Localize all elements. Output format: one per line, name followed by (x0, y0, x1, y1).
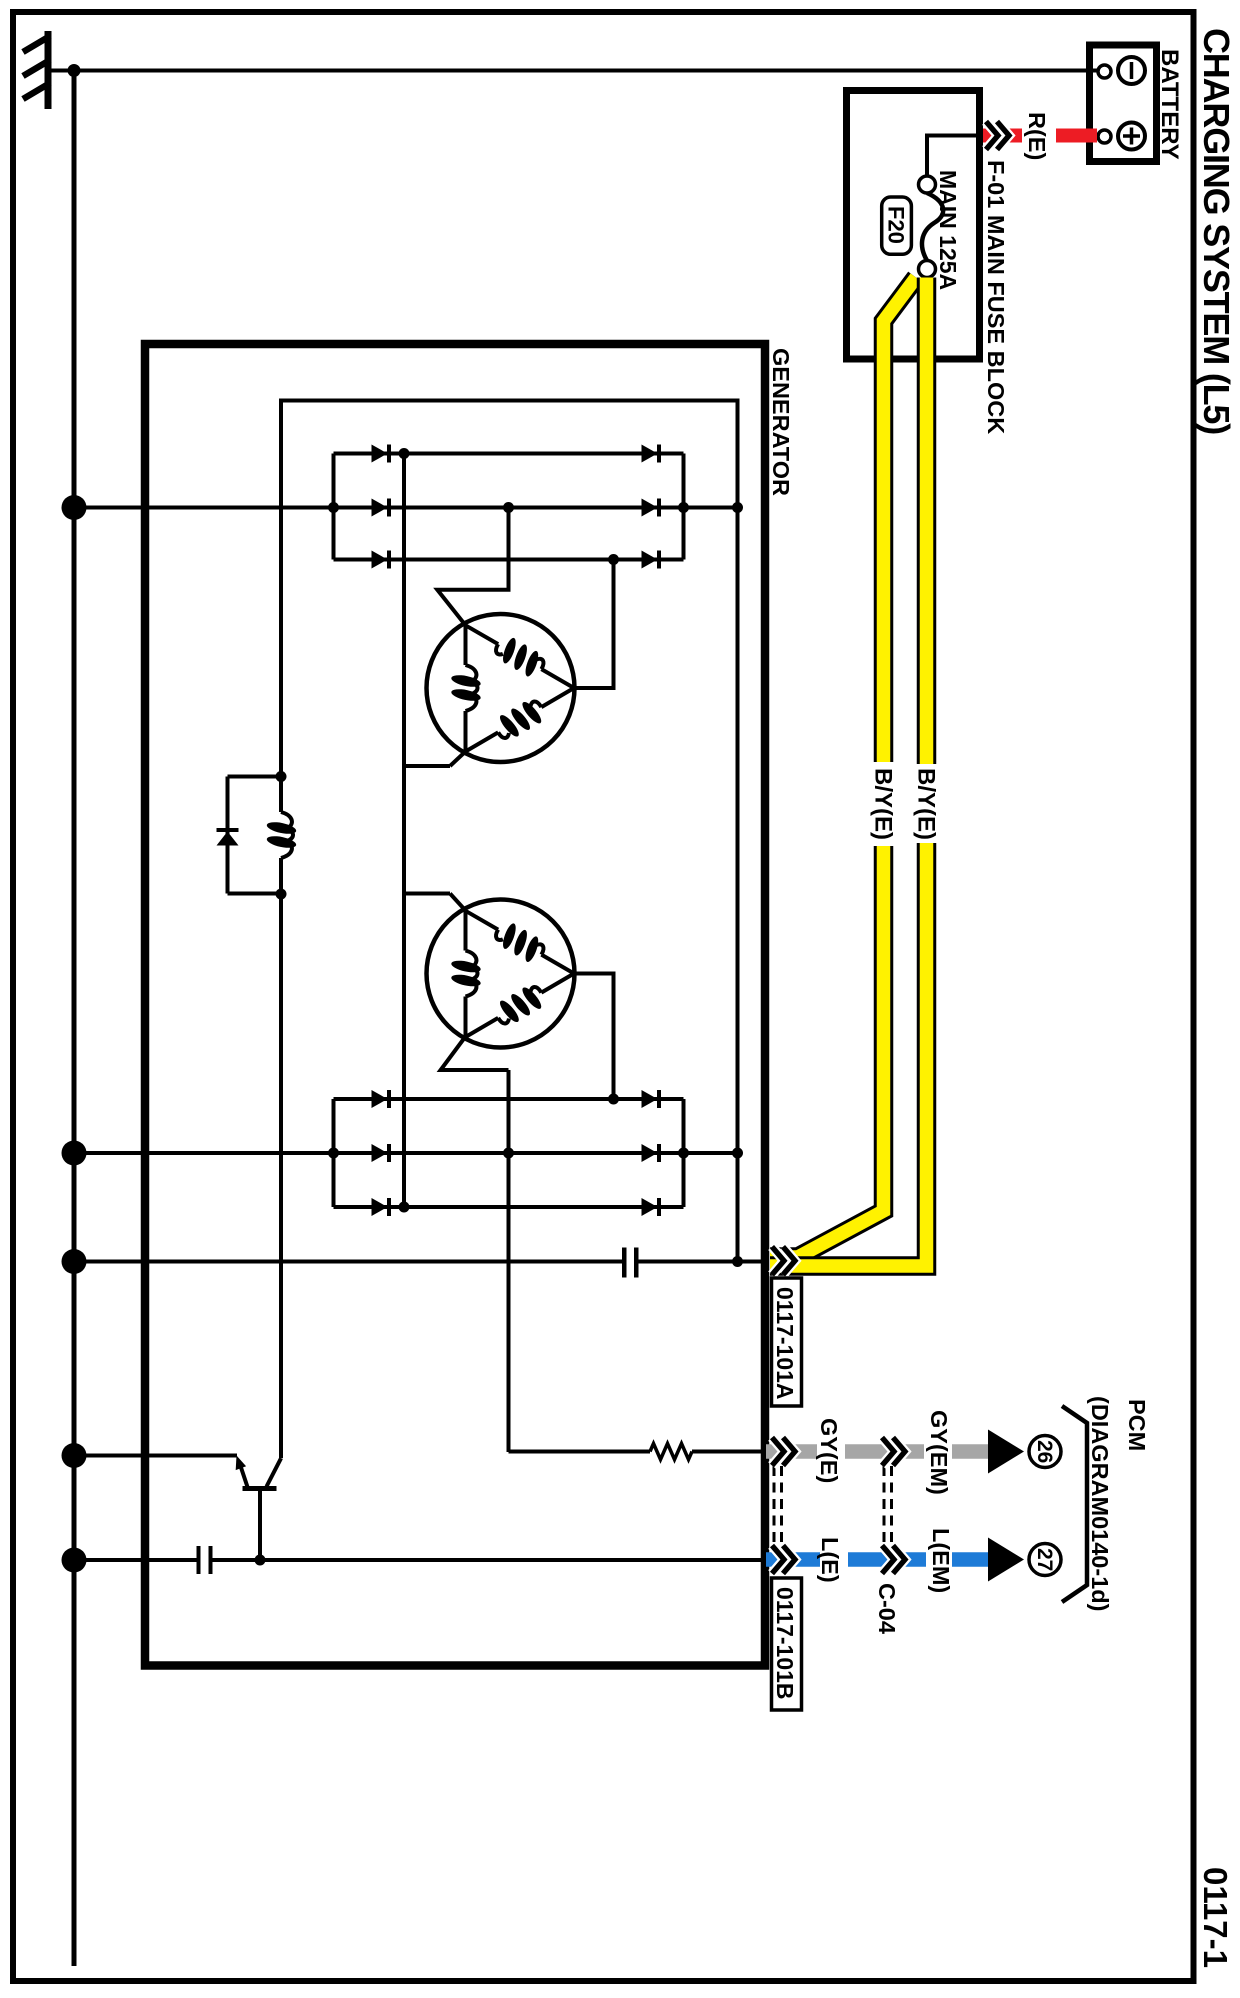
svg-text:GENERATOR: GENERATOR (768, 348, 794, 496)
svg-text:L(EM): L(EM) (928, 1528, 954, 1593)
svg-text:F-01 MAIN FUSE BLOCK: F-01 MAIN FUSE BLOCK (983, 160, 1009, 434)
svg-text:27: 27 (1033, 1548, 1056, 1571)
svg-text:CHARGING SYSTEM (L5): CHARGING SYSTEM (L5) (1196, 28, 1237, 434)
svg-text:MAIN 125A: MAIN 125A (935, 170, 961, 290)
svg-text:BATTERY: BATTERY (1156, 49, 1183, 160)
svg-text:GY(EM): GY(EM) (926, 1410, 952, 1495)
svg-text:0117-1: 0117-1 (1197, 1867, 1234, 1968)
svg-text:F20: F20 (884, 206, 909, 244)
svg-text:B/Y(E): B/Y(E) (913, 768, 940, 840)
svg-text:(DIAGRAM0140-1d): (DIAGRAM0140-1d) (1087, 1396, 1113, 1611)
svg-text:R(E): R(E) (1024, 112, 1050, 160)
svg-text:0117-101A: 0117-101A (772, 1287, 798, 1400)
svg-text:B/Y(E): B/Y(E) (870, 768, 897, 840)
svg-text:C-04: C-04 (874, 1583, 900, 1634)
svg-text:L(E): L(E) (817, 1537, 843, 1583)
svg-text:0117-101B: 0117-101B (772, 1587, 798, 1700)
svg-text:PCM: PCM (1124, 1399, 1150, 1451)
svg-text:GY(E): GY(E) (816, 1418, 842, 1483)
svg-text:26: 26 (1033, 1440, 1056, 1463)
